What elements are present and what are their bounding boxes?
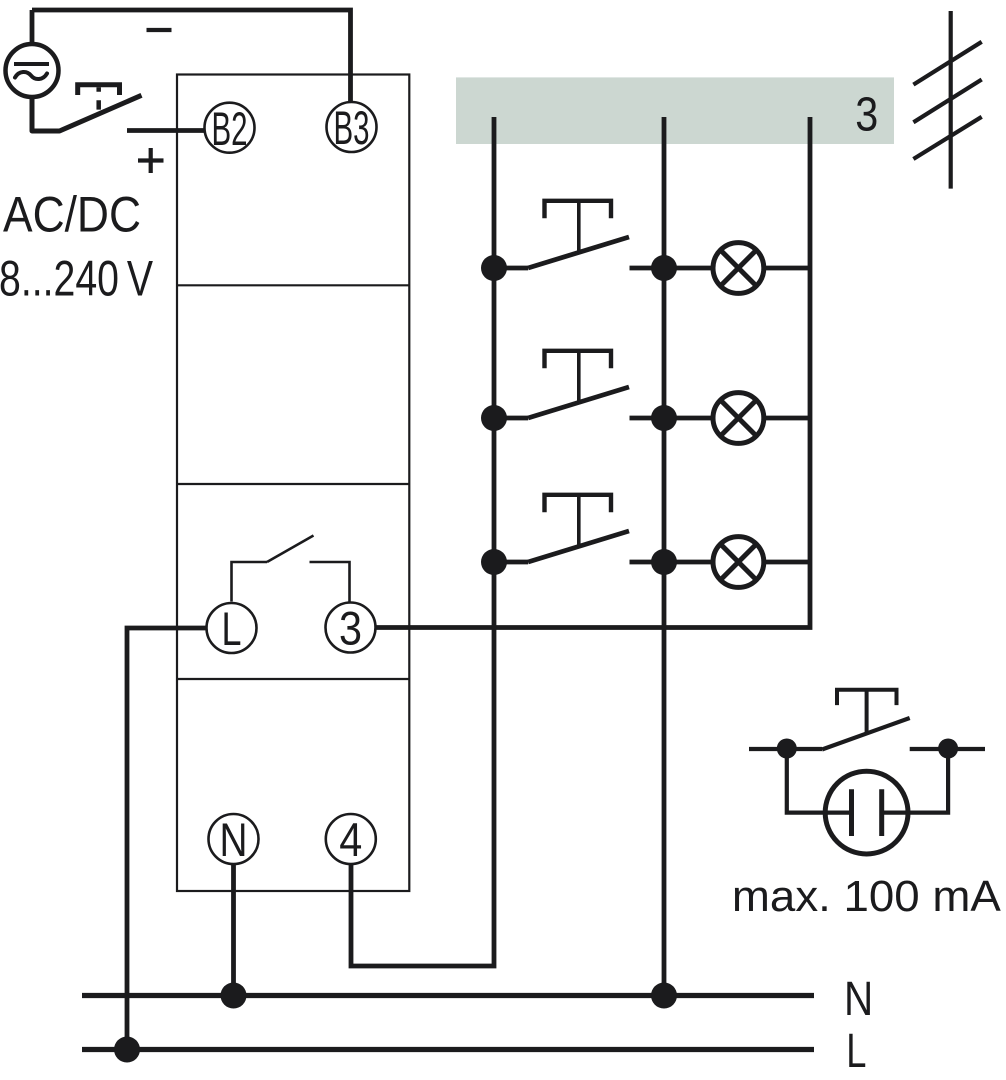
svg-text:L: L xyxy=(846,1025,866,1078)
svg-text:N: N xyxy=(844,973,873,1026)
svg-text:8...240 V: 8...240 V xyxy=(0,249,153,306)
svg-text:max. 100 mA: max. 100 mA xyxy=(732,872,1002,921)
svg-text:B3: B3 xyxy=(334,101,370,154)
svg-text:N: N xyxy=(220,813,248,866)
svg-text:AC/DC: AC/DC xyxy=(3,186,141,243)
svg-text:L: L xyxy=(222,602,242,655)
svg-text:3: 3 xyxy=(855,89,878,142)
svg-text:B2: B2 xyxy=(212,102,248,155)
svg-text:3: 3 xyxy=(339,602,362,655)
svg-text:4: 4 xyxy=(339,813,362,866)
